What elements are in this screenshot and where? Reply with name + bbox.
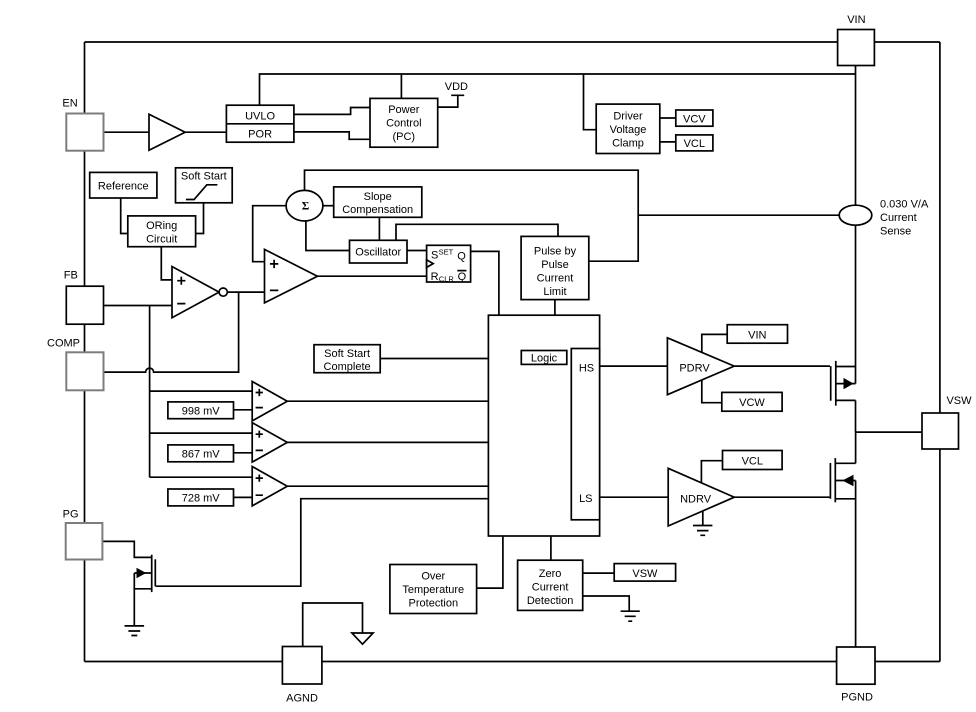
svg-text:Driver: Driver [613,111,643,123]
svg-text:VIN: VIN [748,329,766,341]
wire logic to zero current detection [550,536,552,560]
wire latch Q to logic [471,251,499,315]
wire PDRV output to high-side FET gate [734,365,830,367]
svg-text:VSW: VSW [632,568,658,580]
value box 867 mV [168,445,234,462]
wire PDRV to VCW box [702,380,722,403]
comparator PG2 [252,423,287,462]
svg-text:Reference: Reference [98,180,149,192]
svg-text:Slope: Slope [364,191,392,203]
svg-text:SET: SET [439,247,454,256]
pin COMP [47,338,104,391]
wire border bottom [85,661,940,663]
wire 728mV to comparator3 - [234,496,253,498]
wire FB branch to comparator1 + [150,390,253,392]
wire logic to PG FET gate [155,499,488,587]
wire border left [84,42,86,662]
wire current sense loop to summer and current limit [305,170,639,261]
wire FB branch down to PG comparators [149,306,151,478]
block ORing Circuit [128,216,196,247]
svg-text:HS: HS [579,363,594,375]
svg-text:CLR: CLR [439,275,455,284]
svg-text:Clamp: Clamp [612,137,644,149]
comparator PG3 [252,467,287,506]
latch SR [427,245,471,283]
driver PDRV [667,338,734,395]
svg-text:Pulse: Pulse [541,259,569,271]
buffer EN [149,114,185,150]
svg-text:FB: FB [64,270,78,282]
wire rail drop to Power Control [400,74,402,98]
svg-text:R: R [431,271,439,283]
block Logic main [488,315,599,536]
svg-text:Control: Control [386,118,421,130]
wire soft start complete to logic [380,358,488,360]
block Soft Start Complete [314,345,380,373]
svg-text:Current: Current [880,212,917,224]
svg-text:(PC): (PC) [392,131,415,143]
net box VSW [614,564,675,582]
wire zero current detection to ground [583,596,630,611]
wire logic LS to NDRV [600,496,669,498]
wire low-side FET source to PGND [855,481,857,648]
svg-text:Temperature: Temperature [402,584,464,596]
svg-text:S: S [431,249,438,261]
block Zero Current Detection [518,560,583,610]
op-amp PWM comparator [265,249,318,303]
svg-text:POR: POR [248,129,272,141]
svg-text:VSW: VSW [946,395,972,407]
svg-text:Current: Current [532,582,569,594]
wire high-side FET source to VSW node [855,400,857,432]
block Driver Voltage Clamp [596,104,660,153]
wire PDRV to VIN box [702,334,727,352]
wire COMP pin to error amp output with hop [104,292,239,372]
svg-text:NDRV: NDRV [680,494,712,506]
block Oscillator [350,240,408,263]
svg-text:Soft Start: Soft Start [181,171,227,183]
wire Driver Voltage Clamp to VCL [660,141,676,143]
wire VSW node to low-side FET drain [855,432,857,463]
wire logic HS to PDRV [600,365,668,367]
power symbol VDD [438,81,468,107]
wire zero current detection to VSW box [583,572,615,574]
wire border top [85,41,940,43]
svg-text:Compensation: Compensation [342,204,413,216]
svg-text:VCW: VCW [739,397,765,409]
wire NDRV output to low-side FET gate [734,496,829,498]
block Over Temperature Protection [390,565,477,614]
net box VCV [676,110,713,126]
svg-text:VCL: VCL [684,138,705,150]
svg-text:Over: Over [421,571,445,583]
wire Driver Voltage Clamp to VCV [660,117,676,119]
svg-text:Detection: Detection [527,595,573,607]
wire logic to over temperature protection [477,536,503,588]
wire current sense down to high-side FET [855,225,857,383]
wire PG FET source to ground [133,573,135,626]
wire PWM comparator to latch R [317,275,426,277]
wire VIN pin down to current sense [855,66,857,206]
block Reference [90,172,157,198]
ground NDRV [693,526,712,536]
svg-text:ORing: ORing [146,220,177,232]
wire 998mV to comparator1 - [234,409,253,411]
block Power Control (PC) [370,98,438,147]
block UVLO/POR [226,105,294,142]
pin EN [62,98,103,151]
wire slope compensation to oscillator [378,217,380,240]
wire current sense branch [638,214,839,216]
wire oscillator to summer [306,221,350,251]
wire FB branch to comparator2 + [150,432,253,434]
svg-text:Complete: Complete [324,361,371,373]
wire comparator2 output to logic [287,441,488,443]
pin PG [63,509,103,560]
wire 867mV to comparator2 - [234,452,253,454]
svg-text:PDRV: PDRV [679,363,710,375]
svg-text:Current: Current [537,272,574,284]
wire EN pin to buffer [104,131,150,133]
wire error amp output to PWM comparator - [227,291,264,293]
transistor PG FET [134,555,155,592]
svg-text:Q: Q [457,250,466,262]
comparator PG1 [252,382,287,421]
wire UVLO to Power Control [294,108,370,115]
wire pulse-by-pulse to logic [554,300,556,316]
wire oscillator clock to pulse-by-pulse [396,224,558,240]
svg-text:AGND: AGND [286,693,318,705]
block HS/LS driver stage [571,349,599,520]
value box 998 mV [168,402,234,419]
svg-text:Pulse by: Pulse by [534,245,577,257]
summer sigma [286,190,323,221]
wire VDD rail from UVLO top across top [260,74,856,105]
wire rail drop to Driver Voltage Clamp [584,74,597,130]
svg-text:728 mV: 728 mV [182,493,221,505]
svg-text:COMP: COMP [47,338,80,350]
wire NDRV to VCL box [701,461,722,483]
pin VSW [922,395,972,449]
svg-text:Logic: Logic [531,353,558,365]
wire Reference to ORing circuit [121,198,128,234]
net box VCW [722,392,782,411]
wire FB branch to comparator3 + [150,476,253,478]
transistor high-side FET [831,361,856,406]
svg-text:VIN: VIN [847,14,865,26]
svg-text:Zero: Zero [539,568,562,580]
net box VCL [676,135,713,151]
svg-text:PG: PG [63,509,79,521]
value box 728 mV [168,489,234,506]
wire summer to PWM comparator + [253,206,286,262]
svg-text:Oscillator: Oscillator [355,247,401,259]
ground zero current detection [621,611,640,621]
svg-text:Power: Power [388,104,420,116]
wire ORing circuit to error amp + [161,247,172,280]
svg-text:VDD: VDD [445,81,468,93]
svg-text:998 mV: 998 mV [182,405,221,417]
svg-text:Sense: Sense [880,225,911,237]
svg-text:Q: Q [458,271,467,283]
block Pulse by Pulse Current Limit [521,236,589,299]
svg-text:Voltage: Voltage [610,124,647,136]
net box VIN [727,325,787,344]
wire VSW node to VSW pin [856,431,922,433]
wire buffer to UVLO/POR [185,131,226,133]
svg-text:EN: EN [62,98,77,110]
current sense 0.030 V/A [839,199,929,238]
wire summer to slope compensation [322,205,334,207]
block Soft Start [176,168,233,203]
wire AGND to analog ground symbol [303,603,363,647]
wire border right [939,42,941,662]
label box Logic [521,351,567,365]
op-amp error amplifier [172,267,227,318]
block Slope Compensation [334,187,422,217]
wire PG pin to PG FET drain [102,541,151,557]
wire oscillator to latch S [407,250,427,252]
wire comparator3 output to logic [287,485,488,487]
transistor low-side FET [830,458,855,502]
svg-text:Limit: Limit [543,286,566,298]
svg-text:Circuit: Circuit [146,234,177,246]
svg-text:0.030 V/A: 0.030 V/A [880,199,929,211]
wire Soft Start to ORing circuit [196,203,204,234]
net box VCL driver [723,451,783,470]
svg-text:Soft Start: Soft Start [324,348,370,360]
wire comparator1 output to logic [287,400,488,402]
wire POR to Power Control [294,132,370,139]
pin VIN [838,14,875,66]
wire FB pin to error amp - [104,305,173,307]
svg-text:UVLO: UVLO [245,110,275,122]
ground PG FET [125,626,145,636]
svg-text:Protection: Protection [409,597,459,609]
svg-text:VCL: VCL [742,456,763,468]
svg-text:LS: LS [579,493,592,505]
pin FB [64,270,104,325]
driver NDRV [668,468,734,526]
pin AGND [282,647,322,705]
ground analog triangle [352,633,373,644]
wire NDRV ground stub [702,511,704,526]
svg-text:867 mV: 867 mV [182,448,221,460]
svg-text:PGND: PGND [841,692,873,704]
pin PGND [837,647,875,704]
svg-text:Σ: Σ [302,201,310,213]
svg-text:VCV: VCV [683,113,706,125]
